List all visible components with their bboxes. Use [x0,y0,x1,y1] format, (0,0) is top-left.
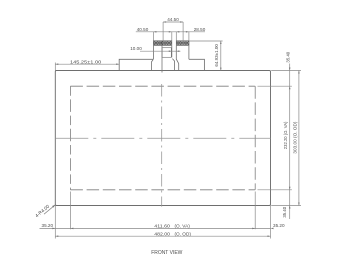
hatch pad left [153,41,171,46]
dim 44.50 [163,22,183,45]
svg-text:303.00 (O. OD): 303.00 (O. OD) [293,121,298,154]
dim 145.25 [54,63,56,71]
svg-text:(O. VA): (O. VA) [175,223,191,228]
svg-text:10.00: 10.00 [130,46,142,51]
vertical center line [161,84,163,207]
boss pedestal left [119,59,153,70]
dim 303.00 [298,71,300,206]
svg-text:35.20: 35.20 [273,223,285,228]
viewing area dashed rect [70,86,255,190]
svg-text:145.25±1.00: 145.25±1.00 [70,60,102,66]
tab chamfer left [151,60,153,71]
dim 35.40 top / 232.20 / 35.40 bottom [289,64,291,220]
dim 40.50 / 28.50 [136,32,205,41]
right extensions [258,71,302,206]
bracket neck right edge [188,46,190,60]
leader 4-R4.00 [44,205,55,214]
svg-text:44.50: 44.50 [167,17,179,22]
center solid line in boss [161,41,163,73]
dim 64.93 [220,41,222,71]
dim 411.60 + 35.20s [40,227,271,229]
svg-text:FRONT VIEW: FRONT VIEW [151,250,183,256]
svg-text:35.40: 35.40 [286,51,291,62]
horizontal center line [55,137,270,139]
svg-text:482.00: 482.00 [154,231,170,236]
svg-text:40.50: 40.50 [137,27,149,32]
svg-text:(O. OD): (O. OD) [175,231,192,236]
svg-text:35.40: 35.40 [282,206,287,217]
svg-text:28.50: 28.50 [194,27,206,32]
bracket neck left edge [152,46,154,60]
hatch pad right [176,41,189,46]
svg-text:35.20: 35.20 [42,223,54,228]
inner hole rect [162,48,171,58]
svg-text:64.93±1.00: 64.93±1.00 [214,44,219,67]
svg-text:411.60: 411.60 [154,223,170,228]
svg-text:232.20 (O. VA): 232.20 (O. VA) [283,121,288,149]
panel outline [55,71,270,206]
slot right wall [176,46,178,71]
slot left wall [171,46,173,58]
dim 10.00 [140,50,180,52]
dim 482.00 [55,235,270,237]
extension hatch top to 64.93 dim [189,40,223,42]
boss pedestal right [189,59,205,70]
tab chamfer inner [172,59,174,71]
bottom extensions [55,192,270,239]
